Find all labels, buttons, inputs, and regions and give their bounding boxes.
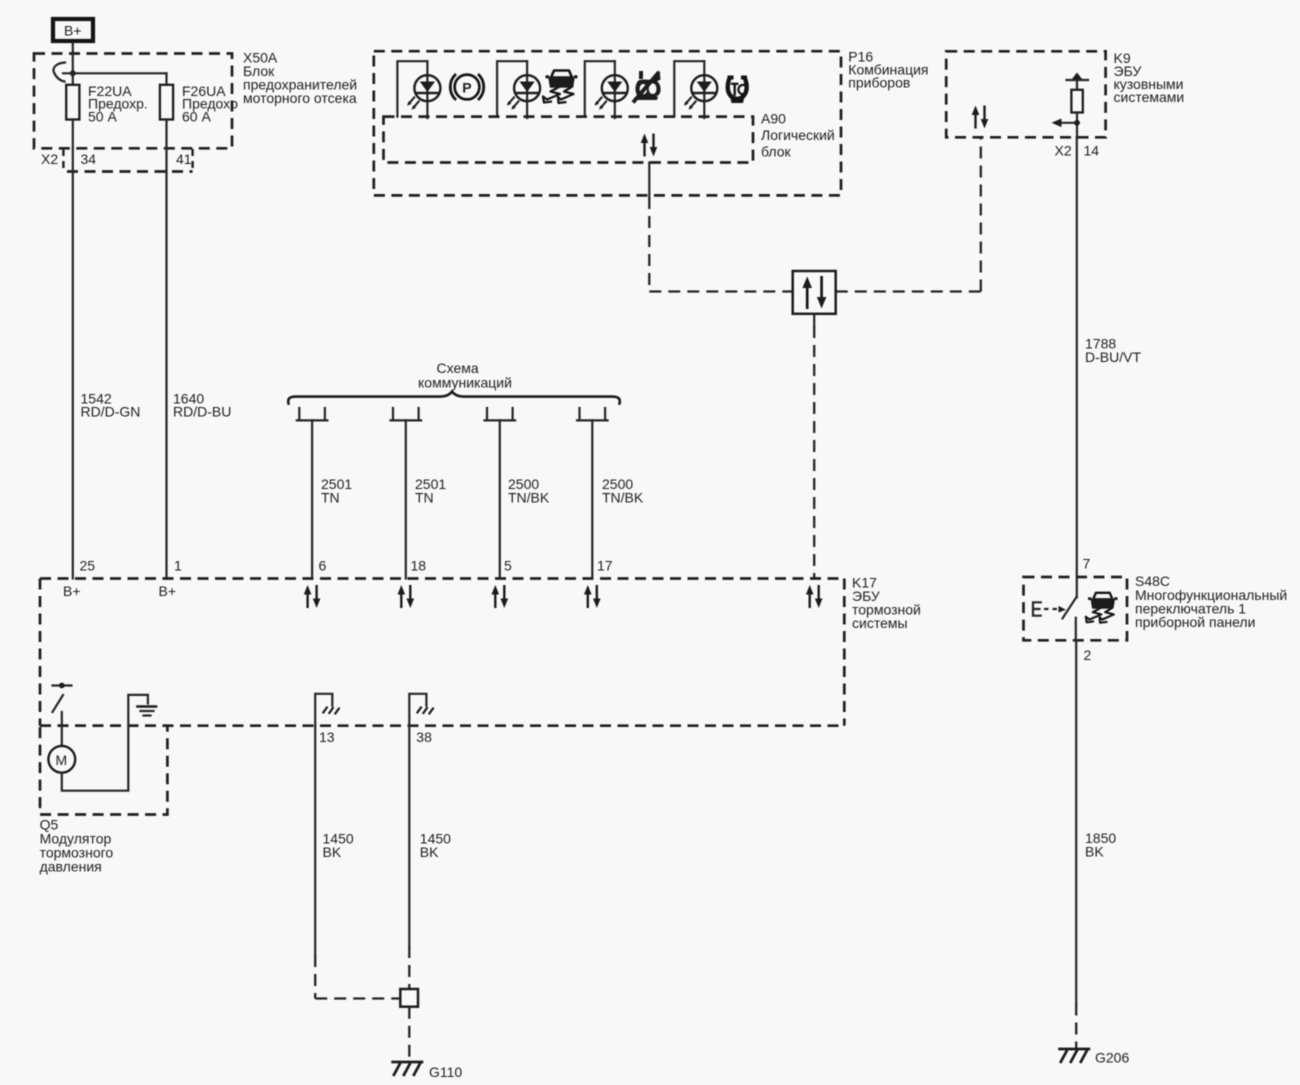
svg-text:коммуникаций: коммуникаций — [418, 375, 512, 391]
svg-text:BK: BK — [420, 844, 439, 860]
svg-text:моторного отсека: моторного отсека — [243, 90, 357, 106]
svg-text:13: 13 — [319, 729, 335, 745]
svg-text:TN: TN — [321, 490, 340, 506]
svg-text:B+: B+ — [63, 583, 81, 599]
svg-text:системы: системы — [852, 615, 908, 631]
svg-text:TN/BK: TN/BK — [508, 490, 550, 506]
svg-text:2: 2 — [1084, 647, 1092, 663]
svg-text:P: P — [462, 79, 471, 95]
svg-text:BK: BK — [323, 844, 342, 860]
svg-text:7: 7 — [1083, 556, 1091, 572]
svg-text:41: 41 — [176, 151, 192, 167]
svg-text:D-BU/VT: D-BU/VT — [1085, 349, 1141, 365]
svg-text:1: 1 — [174, 558, 182, 574]
svg-text:60 А: 60 А — [182, 108, 211, 124]
svg-text:M: M — [56, 752, 68, 768]
svg-text:G206: G206 — [1095, 1050, 1129, 1066]
svg-text:системами: системами — [1114, 89, 1185, 105]
svg-text:RD/D-BU: RD/D-BU — [173, 404, 231, 420]
svg-text:A90: A90 — [761, 111, 786, 127]
svg-text:G110: G110 — [429, 1064, 462, 1080]
svg-text:14: 14 — [1084, 143, 1100, 159]
svg-text:6: 6 — [319, 558, 327, 574]
svg-text:блок: блок — [761, 144, 792, 160]
svg-text:приборов: приборов — [848, 75, 910, 91]
svg-text:приборной панели: приборной панели — [1135, 614, 1255, 630]
svg-text:18: 18 — [411, 558, 427, 574]
svg-text:34: 34 — [81, 151, 97, 167]
svg-text:5: 5 — [504, 558, 512, 574]
svg-text:давления: давления — [40, 859, 102, 875]
svg-text:RD/D-GN: RD/D-GN — [81, 404, 141, 420]
svg-text:25: 25 — [80, 558, 96, 574]
svg-text:BK: BK — [1085, 844, 1104, 860]
svg-text:17: 17 — [597, 558, 613, 574]
svg-text:X2: X2 — [1055, 143, 1072, 159]
svg-text:B+: B+ — [64, 23, 82, 39]
svg-text:TN/BK: TN/BK — [602, 490, 644, 506]
svg-text:X2: X2 — [41, 151, 58, 167]
svg-text:TN: TN — [415, 490, 434, 506]
svg-text:Логический: Логический — [761, 127, 835, 143]
svg-text:50 А: 50 А — [88, 108, 117, 124]
svg-text:38: 38 — [416, 729, 432, 745]
svg-text:B+: B+ — [159, 583, 177, 599]
